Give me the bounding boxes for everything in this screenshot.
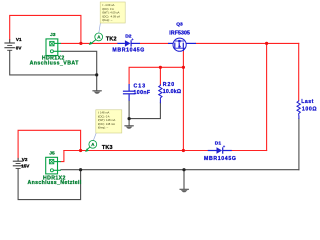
svg-text:V2: V2 — [22, 157, 28, 162]
svg-text:MBR1045G: MBR1045G — [204, 156, 236, 162]
svg-text:J5: J5 — [49, 150, 55, 156]
svg-text:Q3: Q3 — [176, 21, 183, 27]
svg-text:100nF: 100nF — [134, 90, 151, 96]
svg-text:D1: D1 — [215, 140, 222, 146]
svg-text:I(DC): -4.09 uA: I(DC): -4.09 uA — [102, 14, 120, 18]
svg-text:I: 148 mA: I: 148 mA — [98, 111, 110, 115]
svg-text:TK3: TK3 — [102, 145, 113, 151]
svg-text:15V: 15V — [21, 163, 30, 168]
svg-text:TK2: TK2 — [106, 36, 117, 42]
svg-text:I(WT): 148 mA: I(WT): 148 mA — [98, 118, 116, 122]
svg-text:I: -4.09 uA: I: -4.09 uA — [102, 3, 115, 7]
svg-text:I(freq): --: I(freq): -- — [102, 18, 113, 22]
svg-text:100Ω: 100Ω — [302, 107, 317, 113]
svg-text:I(DC): 148 mA: I(DC): 148 mA — [98, 122, 115, 126]
svg-text:Anschluss_VBAT: Anschluss_VBAT — [30, 61, 80, 67]
svg-text:I(DC): 0 A: I(DC): 0 A — [102, 7, 114, 11]
svg-text:I(DC): 0 A: I(DC): 0 A — [98, 114, 110, 118]
svg-text:I(WT): 4.09 uA: I(WT): 4.09 uA — [102, 11, 120, 15]
svg-text:IRF5305: IRF5305 — [169, 30, 190, 36]
svg-text:R20: R20 — [163, 82, 175, 88]
svg-text:J3: J3 — [50, 32, 56, 38]
svg-text:Last: Last — [301, 99, 313, 105]
svg-text:10.0kΩ: 10.0kΩ — [163, 89, 181, 95]
svg-text:V1: V1 — [16, 37, 22, 42]
svg-text:I(freq): --: I(freq): -- — [98, 126, 109, 130]
svg-text:Anschluss_Netzteil: Anschluss_Netzteil — [28, 180, 82, 186]
svg-text:0V: 0V — [16, 45, 23, 50]
svg-text:C13: C13 — [134, 83, 146, 89]
svg-text:D2: D2 — [125, 33, 132, 39]
svg-text:MBR1045G: MBR1045G — [112, 47, 144, 53]
